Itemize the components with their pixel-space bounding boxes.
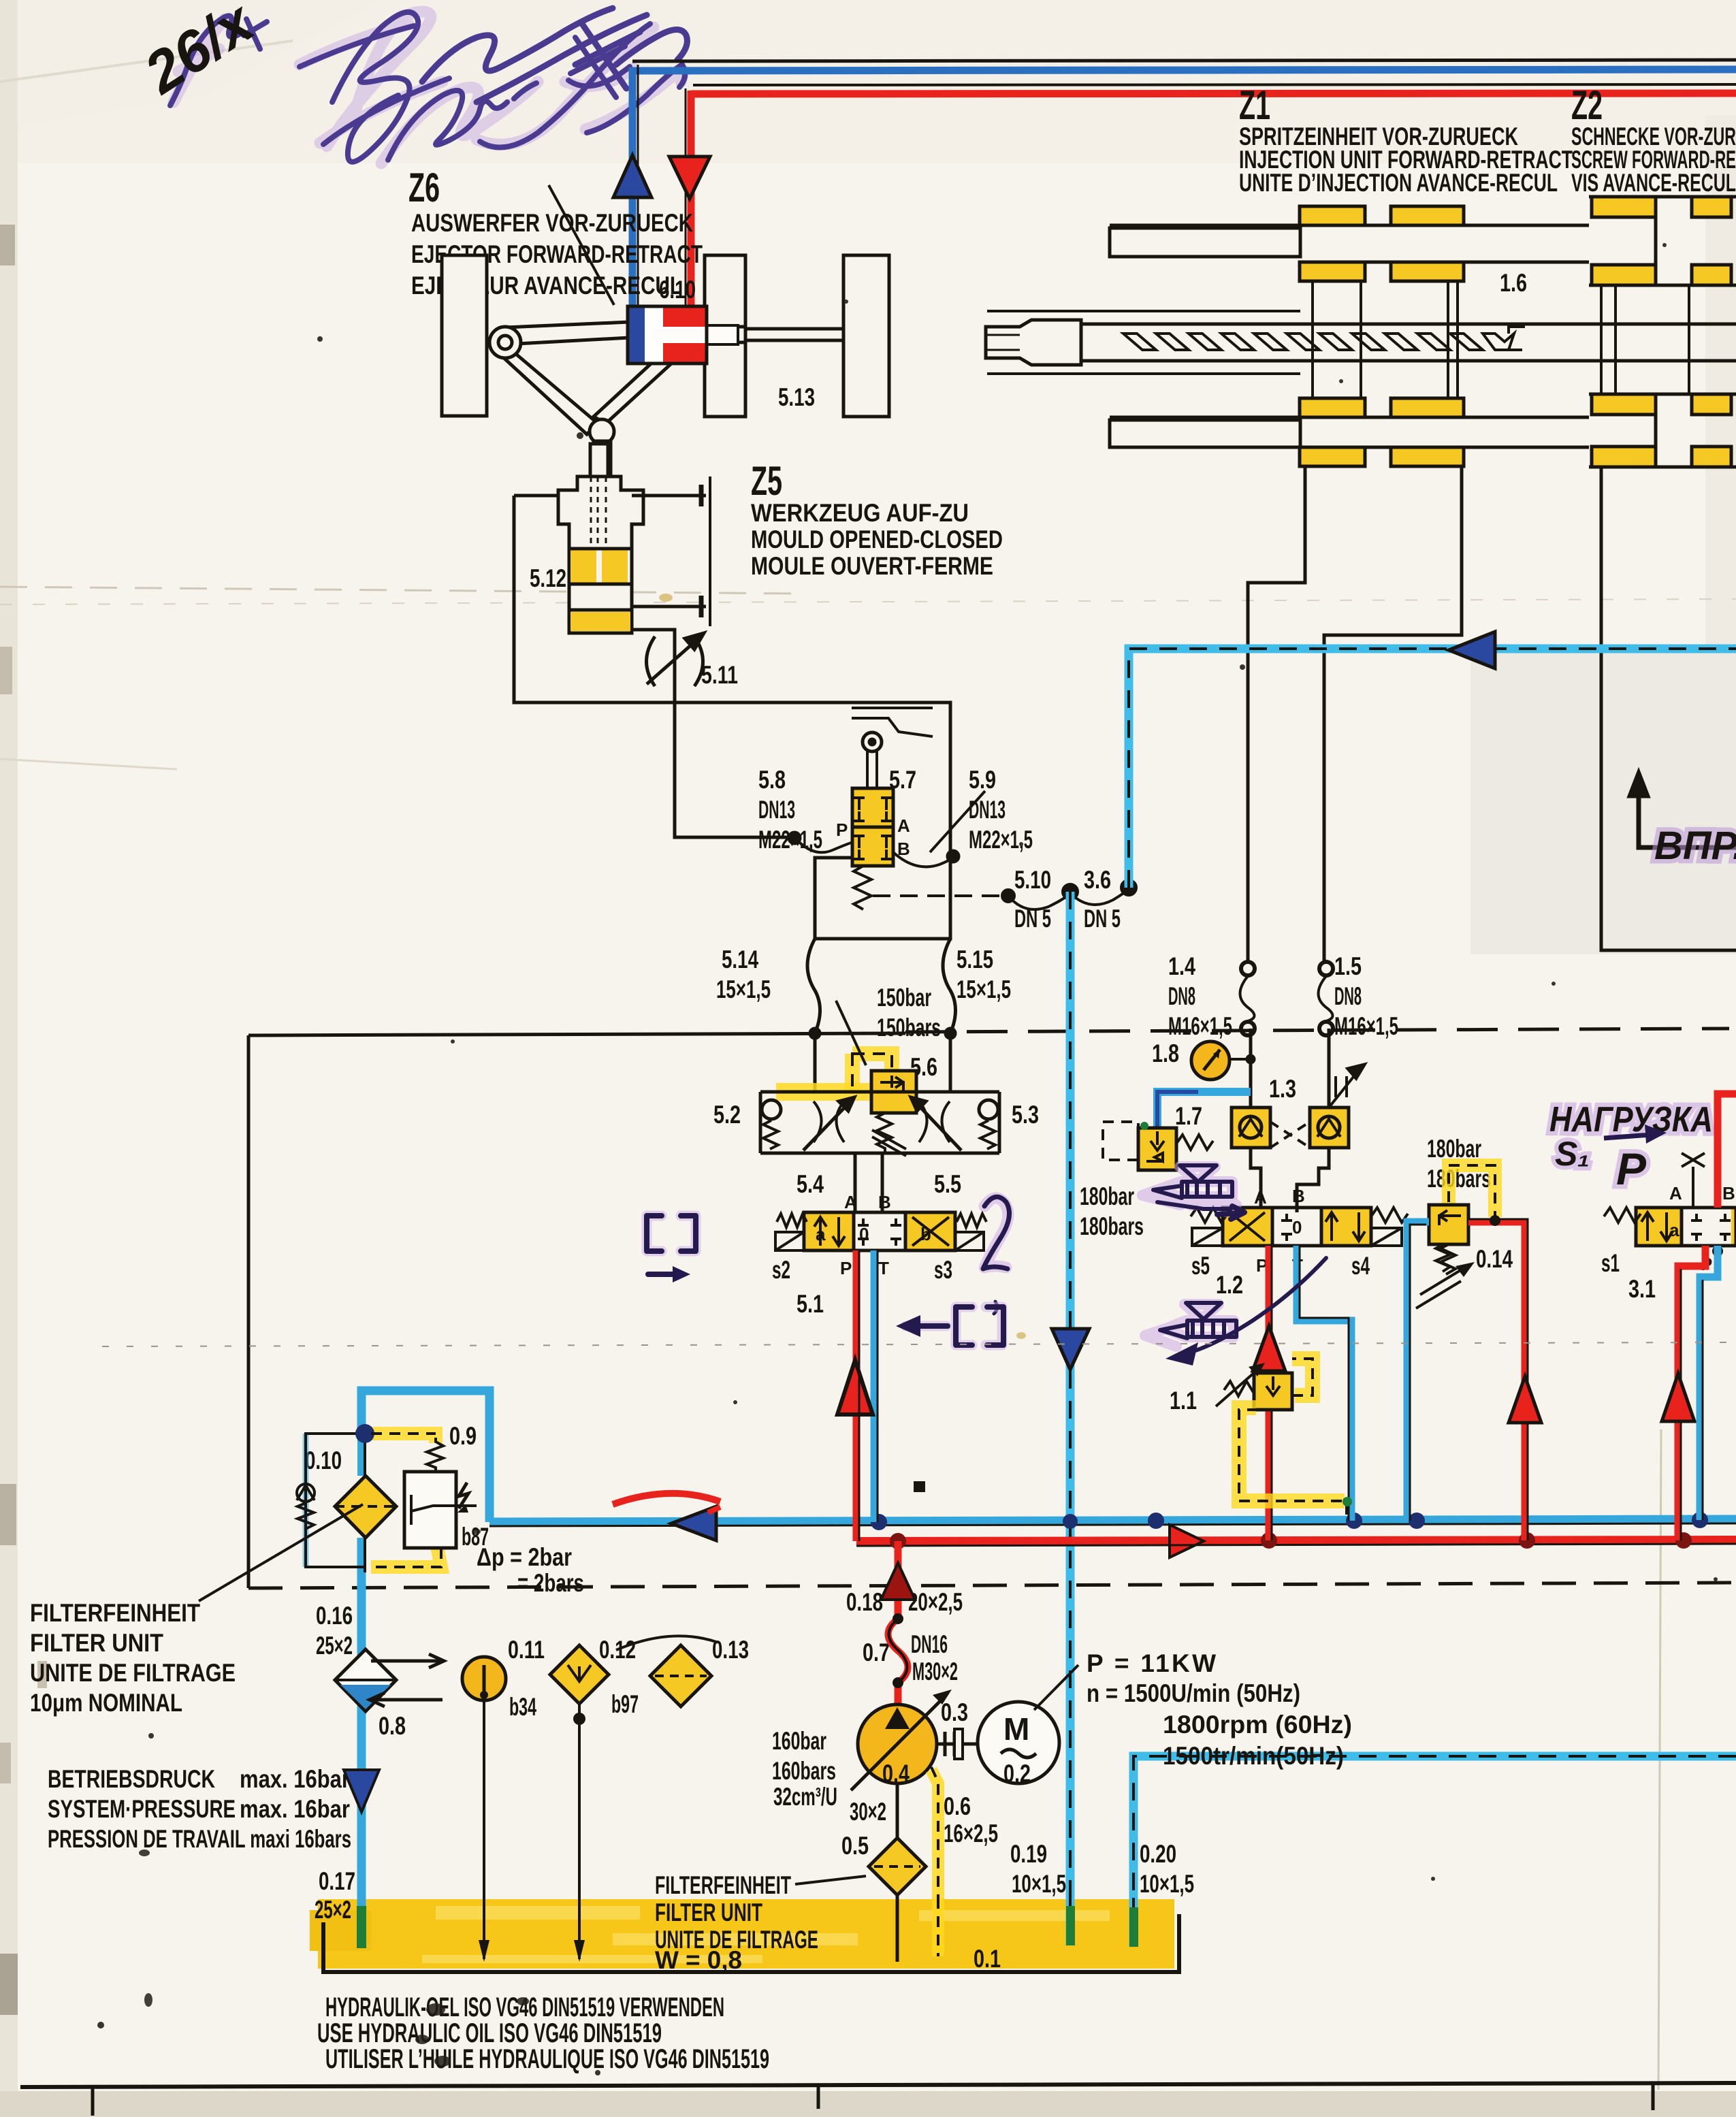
svg-text:25×2: 25×2 xyxy=(315,1896,351,1924)
svg-text:B: B xyxy=(1722,1183,1735,1203)
svg-text:A: A xyxy=(844,1192,857,1212)
svg-text:0.1: 0.1 xyxy=(974,1945,1001,1973)
svg-text:MOULE OUVERT-FERME: MOULE OUVERT-FERME xyxy=(751,552,993,580)
svg-text:MOULD OPENED-CLOSED: MOULD OPENED-CLOSED xyxy=(751,526,1003,553)
svg-text:160bars: 160bars xyxy=(772,1757,836,1785)
svg-text:180bars: 180bars xyxy=(1080,1212,1144,1240)
svg-text:0.20: 0.20 xyxy=(1140,1840,1176,1868)
svg-text:A: A xyxy=(1254,1187,1267,1208)
svg-text:15×1,5: 15×1,5 xyxy=(716,975,771,1003)
svg-text:s3: s3 xyxy=(934,1256,952,1284)
svg-text:= 2bars: = 2bars xyxy=(517,1569,584,1597)
svg-text:M22×1,5: M22×1,5 xyxy=(969,826,1033,854)
svg-text:s5: s5 xyxy=(1191,1252,1210,1280)
svg-text:0.14: 0.14 xyxy=(1476,1245,1513,1273)
svg-text:0.19: 0.19 xyxy=(1010,1840,1047,1868)
svg-text:B: B xyxy=(1292,1186,1305,1206)
svg-text:W = 0,8: W = 0,8 xyxy=(655,1946,742,1974)
svg-text:AUSWERFER VOR-ZURUECK: AUSWERFER VOR-ZURUECK xyxy=(411,209,693,237)
svg-text:3.1: 3.1 xyxy=(1628,1275,1656,1303)
svg-text:DN16: DN16 xyxy=(911,1630,948,1658)
svg-text:b34: b34 xyxy=(509,1693,536,1721)
svg-text:0.10: 0.10 xyxy=(305,1447,342,1474)
svg-text:20×2,5: 20×2,5 xyxy=(908,1588,963,1616)
svg-text:max. 16bar: max. 16bar xyxy=(240,1765,350,1793)
svg-text:1500tr/min(50Hz): 1500tr/min(50Hz) xyxy=(1163,1742,1344,1770)
svg-text:0.11: 0.11 xyxy=(508,1636,545,1664)
svg-text:5.13: 5.13 xyxy=(778,383,815,411)
svg-text:5.1: 5.1 xyxy=(797,1290,824,1318)
svg-text:0.3: 0.3 xyxy=(941,1698,968,1726)
svg-text:1.6: 1.6 xyxy=(1500,269,1527,297)
svg-text:0: 0 xyxy=(859,1224,869,1244)
svg-text:DN 5: DN 5 xyxy=(1084,905,1121,933)
svg-text:Z2: Z2 xyxy=(1571,82,1603,128)
svg-text:FILTER UNIT: FILTER UNIT xyxy=(655,1898,762,1926)
svg-text:s1: s1 xyxy=(1601,1249,1620,1277)
svg-text:5.12: 5.12 xyxy=(530,564,566,592)
svg-text:НАГРУЗКА: НАГРУЗКА xyxy=(1549,1100,1713,1140)
svg-text:M16×1,5: M16×1,5 xyxy=(1334,1012,1398,1040)
svg-text:10×1,5: 10×1,5 xyxy=(1012,1870,1066,1898)
svg-text:1.4: 1.4 xyxy=(1168,952,1195,980)
svg-text:1.1: 1.1 xyxy=(1170,1387,1197,1415)
svg-text:3.6: 3.6 xyxy=(1084,866,1111,894)
svg-text:1.3: 1.3 xyxy=(1269,1075,1296,1103)
svg-text:WERKZEUG AUF-ZU: WERKZEUG AUF-ZU xyxy=(751,499,969,527)
svg-text:PRESSION DE TRAVAIL maxi 16bar: PRESSION DE TRAVAIL maxi 16bars xyxy=(48,1825,351,1853)
svg-text:a: a xyxy=(816,1224,826,1244)
svg-text:A: A xyxy=(1669,1183,1682,1203)
svg-text:16×2,5: 16×2,5 xyxy=(944,1820,998,1847)
svg-text:b: b xyxy=(920,1224,931,1244)
svg-text:0.16: 0.16 xyxy=(316,1602,353,1630)
svg-text:UNITE D’INJECTION AVANCE-RECUL: UNITE D’INJECTION AVANCE-RECUL xyxy=(1239,169,1558,197)
svg-text:180bar: 180bar xyxy=(1427,1135,1481,1163)
svg-text:160bar: 160bar xyxy=(772,1727,826,1755)
svg-text:1800rpm (60Hz): 1800rpm (60Hz) xyxy=(1163,1711,1352,1739)
svg-text:0.13: 0.13 xyxy=(712,1636,749,1664)
svg-text:0.18: 0.18 xyxy=(846,1588,883,1616)
svg-text:Z5: Z5 xyxy=(751,458,782,504)
svg-text:0.8: 0.8 xyxy=(379,1712,406,1740)
svg-text:b97: b97 xyxy=(611,1690,639,1718)
svg-text:Δp = 2bar: Δp = 2bar xyxy=(477,1543,572,1571)
svg-text:0.2: 0.2 xyxy=(1003,1760,1031,1788)
svg-text:5.4: 5.4 xyxy=(797,1170,824,1198)
svg-text:UNITE DE FILTRAGE: UNITE DE FILTRAGE xyxy=(30,1659,236,1687)
svg-text:M30×2: M30×2 xyxy=(912,1658,958,1685)
svg-text:1.7: 1.7 xyxy=(1175,1102,1202,1130)
svg-text:5.15: 5.15 xyxy=(957,946,993,973)
svg-text:5.9: 5.9 xyxy=(969,766,996,794)
svg-text:5.2: 5.2 xyxy=(713,1101,741,1129)
svg-text:P: P xyxy=(840,1258,852,1278)
svg-text:DN8: DN8 xyxy=(1334,982,1362,1010)
svg-text:0.6: 0.6 xyxy=(944,1792,971,1820)
svg-text:P: P xyxy=(836,820,848,840)
svg-text:15×1,5: 15×1,5 xyxy=(957,975,1011,1003)
svg-text:5.14: 5.14 xyxy=(722,946,758,973)
svg-text:DN8: DN8 xyxy=(1168,982,1195,1010)
svg-text:DN13: DN13 xyxy=(969,796,1006,824)
svg-text:FILTER UNIT: FILTER UNIT xyxy=(30,1629,163,1657)
svg-text:32cm³/U: 32cm³/U xyxy=(773,1783,837,1811)
svg-text:5.5: 5.5 xyxy=(934,1170,961,1198)
svg-text:max. 16bar: max. 16bar xyxy=(240,1795,350,1823)
svg-text:10×1,5: 10×1,5 xyxy=(1140,1870,1194,1898)
svg-text:BETRIEBSDRUCK: BETRIEBSDRUCK xyxy=(48,1765,215,1793)
svg-text:5.11: 5.11 xyxy=(701,661,738,689)
svg-text:n = 1500U/min (50Hz): n = 1500U/min (50Hz) xyxy=(1087,1679,1300,1707)
svg-text:6.10: 6.10 xyxy=(659,276,696,304)
svg-text:M16×1,5: M16×1,5 xyxy=(1168,1012,1232,1040)
svg-text:FILTERFEINHEIT: FILTERFEINHEIT xyxy=(655,1871,791,1899)
svg-text:5.10: 5.10 xyxy=(1014,866,1051,894)
svg-text:1.2: 1.2 xyxy=(1216,1271,1243,1299)
svg-text:1.5: 1.5 xyxy=(1334,952,1362,980)
svg-text:25×2: 25×2 xyxy=(316,1632,353,1660)
svg-text:150bar: 150bar xyxy=(877,984,931,1012)
svg-text:0.7: 0.7 xyxy=(863,1638,890,1666)
svg-text:s4: s4 xyxy=(1351,1252,1370,1280)
svg-text:P = 11KW: P = 11KW xyxy=(1087,1649,1216,1677)
svg-text:S₁: S₁ xyxy=(1555,1135,1590,1173)
svg-text:5.3: 5.3 xyxy=(1012,1101,1039,1129)
svg-text:10μm NOMINAL: 10μm NOMINAL xyxy=(30,1689,182,1717)
svg-text:0: 0 xyxy=(1292,1217,1302,1238)
svg-text:180bar: 180bar xyxy=(1080,1182,1134,1210)
svg-text:M: M xyxy=(1003,1711,1029,1747)
svg-text:DN13: DN13 xyxy=(758,796,795,824)
svg-text:s2: s2 xyxy=(772,1256,790,1284)
svg-text:ВПР.: ВПР. xyxy=(1654,824,1736,868)
svg-text:30×2: 30×2 xyxy=(850,1798,886,1826)
svg-text:FILTERFEINHEIT: FILTERFEINHEIT xyxy=(30,1599,200,1627)
svg-text:150bars: 150bars xyxy=(877,1014,941,1041)
svg-text:T: T xyxy=(878,1258,889,1278)
svg-text:B: B xyxy=(878,1192,891,1212)
svg-text:a: a xyxy=(1669,1220,1679,1240)
svg-text:Z1: Z1 xyxy=(1239,82,1270,128)
svg-text:VIS AVANCE-RECUL: VIS AVANCE-RECUL xyxy=(1571,169,1736,197)
svg-text:SYSTEM·PRESSURE: SYSTEM·PRESSURE xyxy=(48,1795,236,1823)
svg-text:0.5: 0.5 xyxy=(841,1832,869,1860)
svg-text:Z6: Z6 xyxy=(408,165,440,210)
svg-text:5.8: 5.8 xyxy=(758,766,786,794)
svg-text:UTILISER L’HUILE HYDRAULIQUE I: UTILISER L’HUILE HYDRAULIQUE ISO VG46 DI… xyxy=(325,2044,769,2074)
svg-text:0.17: 0.17 xyxy=(319,1867,355,1895)
svg-text:0.9: 0.9 xyxy=(449,1422,477,1450)
svg-text:A: A xyxy=(897,815,910,836)
svg-text:1.8: 1.8 xyxy=(1152,1039,1179,1067)
svg-text:P: P xyxy=(1616,1144,1647,1194)
svg-text:0.4: 0.4 xyxy=(882,1760,910,1788)
